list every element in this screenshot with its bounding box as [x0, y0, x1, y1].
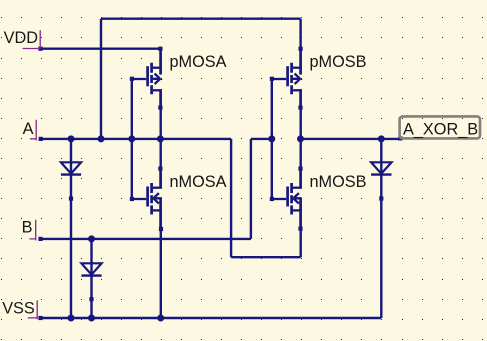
wire diode D3 branch out to VSS — [380, 139, 382, 318]
svg-text:VDD: VDD — [4, 29, 38, 47]
arrow tip dark pixel pMOSB — [301, 78, 303, 80]
wire left vertical from top bus to node A line — [100, 19, 102, 139]
svg-text:pMOSA: pMOSA — [170, 53, 227, 71]
transistor nMOSA — [132, 169, 162, 229]
wire pMOSA source to A line — [159, 108, 161, 139]
wire diode D2 branch B to VSS — [90, 239, 92, 318]
pin end squares — [38, 47, 402, 321]
wire VDD horizontal — [41, 48, 161, 50]
node A anchor — [30, 120, 37, 141]
diode D2 — [81, 263, 101, 275]
transistor nMOSB — [272, 169, 302, 229]
wire diode D1 branch A to VSS — [70, 139, 72, 318]
wire top bus — [101, 18, 301, 20]
label anchors (purple) — [23, 30, 41, 319]
svg-text:VSS: VSS — [2, 299, 35, 317]
wire gate vertical B side — [271, 79, 273, 199]
transistor pMOSB — [272, 49, 302, 108]
port A_XOR_B box — [400, 116, 480, 138]
wire nMOSB drain — [300, 139, 302, 169]
svg-text:A_XOR_B: A_XOR_B — [403, 120, 478, 138]
transistor pMOSA — [132, 49, 162, 108]
wire A-line corner down — [230, 139, 232, 257]
node B anchor — [29, 220, 36, 241]
wire B to pMOSB gate net — [251, 138, 272, 140]
diode D3 — [371, 162, 391, 174]
diode D1 — [61, 162, 81, 174]
node VDD anchor — [23, 30, 41, 49]
wire VSS horizontal — [41, 317, 382, 319]
svg-text:B: B — [22, 219, 33, 237]
wire B line corner up — [250, 139, 252, 239]
wire B line horizontal — [41, 238, 251, 240]
svg-text:nMOSA: nMOSA — [170, 173, 227, 191]
svg-text:nMOSB: nMOSB — [310, 173, 367, 191]
wire pMOSB source to out line — [300, 108, 302, 139]
wire gate vertical A side — [131, 79, 133, 199]
wire right vertical top bus to pMOSB drain — [299, 19, 301, 49]
wire output line — [301, 138, 401, 140]
wire cross horizontal to nMOSB source — [231, 256, 301, 258]
wire nMOSA drain — [159, 139, 161, 169]
svg-text:A: A — [23, 120, 34, 138]
arrow tip dark pixel pMOSA — [161, 78, 163, 80]
wire nMOSA source to VSS — [160, 229, 162, 318]
node VSS anchor — [28, 300, 38, 319]
wire nMOSB source up — [300, 229, 302, 258]
svg-text:pMOSB: pMOSB — [310, 53, 367, 71]
wire A line horizontal — [41, 138, 231, 140]
